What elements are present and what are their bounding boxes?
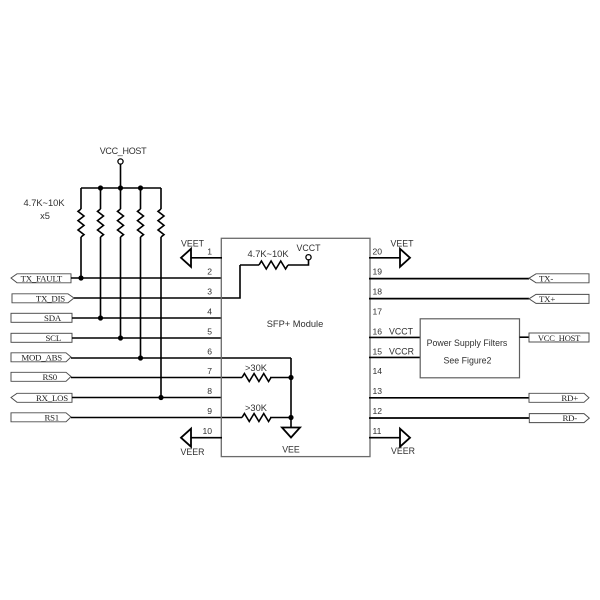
pin 6 bbox=[207, 347, 212, 357]
junction R3/SCL bbox=[118, 335, 123, 340]
pin 4 bbox=[207, 307, 212, 317]
wire top bus bbox=[81, 187, 161, 189]
power port VEE (down triangle) bbox=[282, 428, 300, 455]
wire filter box to VCC_HOST connector bbox=[520, 336, 530, 338]
svg-text:VEET: VEET bbox=[391, 239, 415, 249]
net label VCCR (pin 15) bbox=[389, 347, 414, 357]
resistor R8 >30K (pin 9 to VEE) bbox=[242, 414, 291, 422]
wire pin 20 to VEET port bbox=[369, 257, 400, 259]
connector RX_LOS (left-pointing flag) bbox=[11, 393, 72, 403]
svg-text:>30K: >30K bbox=[245, 403, 268, 413]
wire SDA to pin 4 bbox=[72, 317, 222, 319]
wire TX_DIS to pin 3 and internal riser bbox=[74, 265, 240, 298]
pin 14 bbox=[373, 366, 383, 376]
svg-text:VEET: VEET bbox=[181, 239, 205, 249]
svg-text:3: 3 bbox=[207, 287, 212, 297]
svg-text:9: 9 bbox=[207, 406, 212, 416]
connector SDA (rectangle) bbox=[11, 313, 72, 323]
connector RS1 (right-pointing flag) bbox=[11, 412, 71, 422]
svg-text:x5: x5 bbox=[40, 211, 50, 221]
wire pin 11 to VEER port bbox=[369, 437, 400, 439]
junction on bus at R3 bbox=[118, 185, 123, 190]
wire pin 13 to RD+ bbox=[369, 397, 529, 399]
svg-text:SCL: SCL bbox=[45, 333, 61, 343]
svg-text:10: 10 bbox=[202, 426, 212, 436]
svg-text:15: 15 bbox=[373, 347, 383, 357]
pin 3 bbox=[207, 287, 212, 297]
svg-text:SDA: SDA bbox=[44, 313, 62, 323]
value label >30K (R8) bbox=[245, 403, 268, 413]
wire RS1 to pin 9 bbox=[71, 417, 242, 419]
svg-text:4: 4 bbox=[207, 307, 212, 317]
svg-text:See Figure2: See Figure2 bbox=[444, 356, 492, 366]
resistor R6 4.7K~10K (internal, TX_DIS to VCCT) bbox=[240, 260, 309, 269]
junction on bus at R2 bbox=[98, 185, 103, 190]
value label >30K (R7) bbox=[245, 363, 268, 373]
svg-text:12: 12 bbox=[373, 406, 383, 416]
wire pin 1 to VEET port bbox=[191, 257, 222, 259]
pin 15 bbox=[373, 347, 383, 357]
svg-text:1: 1 bbox=[207, 247, 212, 257]
svg-text:VCCT: VCCT bbox=[297, 243, 322, 253]
svg-text:13: 13 bbox=[373, 386, 383, 396]
svg-text:TX_FAULT: TX_FAULT bbox=[21, 273, 63, 283]
junction on bus at R4 bbox=[138, 185, 143, 190]
junction R7 / VEE rail bbox=[288, 375, 293, 380]
svg-text:RS0: RS0 bbox=[42, 372, 57, 382]
wire pin 19 to TX- bbox=[369, 278, 529, 280]
pin 7 bbox=[207, 366, 212, 376]
connector TX+ (left-pointing flag) bbox=[529, 294, 589, 304]
wire pin 18 to TX+ bbox=[369, 298, 529, 300]
svg-text:SFP+ Module: SFP+ Module bbox=[267, 319, 324, 329]
connector TX_DIS (right-pointing flag) bbox=[12, 293, 74, 303]
wire pin 15 to filter box bbox=[369, 356, 420, 358]
resistor R7 >30K (pin 7 to VEE) bbox=[242, 374, 291, 382]
pin 18 bbox=[373, 287, 383, 297]
svg-text:14: 14 bbox=[373, 366, 383, 376]
wire MOD_ABS to pin 6 and internal run bbox=[71, 357, 291, 359]
svg-text:20: 20 bbox=[373, 247, 383, 257]
wire VCC_HOST vertical bbox=[120, 164, 122, 188]
connector VCC_HOST (rectangle, right) bbox=[529, 333, 589, 343]
svg-text:>30K: >30K bbox=[245, 363, 268, 373]
svg-text:TX+: TX+ bbox=[539, 294, 555, 304]
junction R4/MOD_ABS bbox=[138, 355, 143, 360]
pin 13 bbox=[373, 386, 383, 396]
svg-text:5: 5 bbox=[207, 327, 212, 337]
resistor R4 (4.7K~10K pull-up, to MOD_ABS) bbox=[138, 188, 144, 358]
svg-text:Power Supply Filters: Power Supply Filters bbox=[427, 338, 508, 348]
op module U1 SFP+ Module box bbox=[221, 238, 370, 456]
svg-text:VCCT: VCCT bbox=[389, 327, 414, 337]
svg-text:VEER: VEER bbox=[181, 447, 205, 457]
connector MOD_ABS (right-pointing flag) bbox=[11, 352, 71, 362]
pin 10 bbox=[202, 426, 212, 436]
svg-text:4.7K~10K: 4.7K~10K bbox=[247, 249, 289, 259]
wire RS0 to pin 7 bbox=[71, 377, 242, 379]
net label VCCT (pin 16) bbox=[389, 327, 414, 337]
pin 20 bbox=[373, 247, 383, 257]
connector RS0 (right-pointing flag) bbox=[11, 372, 71, 382]
svg-text:TX_DIS: TX_DIS bbox=[36, 293, 65, 303]
connector SCL (rectangle) bbox=[11, 333, 72, 343]
junction R2/SDA bbox=[98, 315, 103, 320]
pin 19 bbox=[373, 267, 383, 277]
resistor R1 (4.7K~10K pull-up, to TX_FAULT) bbox=[78, 188, 84, 278]
wire TX_FAULT to pin 2 bbox=[71, 277, 222, 279]
power port VEER (right, pin 11) bbox=[391, 429, 415, 456]
svg-text:VEER: VEER bbox=[391, 446, 415, 456]
connector RD- (right-pointing flag) bbox=[529, 413, 589, 423]
connector TX- (left-pointing flag) bbox=[529, 274, 589, 284]
svg-text:16: 16 bbox=[373, 327, 383, 337]
terminal VCC_HOST (open circle) bbox=[118, 159, 123, 164]
pin 16 bbox=[373, 327, 383, 337]
svg-text:VCCR: VCCR bbox=[389, 347, 414, 357]
resistor R2 (4.7K~10K pull-up, to SDA) bbox=[98, 188, 104, 318]
value label 4.7K~10K x5 bbox=[23, 198, 65, 221]
pin 1 bbox=[207, 247, 212, 257]
svg-text:19: 19 bbox=[373, 267, 383, 277]
svg-text:8: 8 bbox=[207, 386, 212, 396]
pin 12 bbox=[373, 406, 383, 416]
pin 5 bbox=[207, 327, 212, 337]
svg-text:RD+: RD+ bbox=[561, 393, 578, 403]
svg-text:TX-: TX- bbox=[539, 274, 553, 284]
svg-text:RX_LOS: RX_LOS bbox=[36, 393, 68, 403]
power port VEET (left, pin 1) bbox=[181, 239, 205, 267]
resistor R3 (4.7K~10K pull-up, to SCL) bbox=[118, 188, 124, 338]
connector RD+ (right-pointing flag) bbox=[529, 393, 589, 403]
resistor R5 (4.7K~10K pull-up, to RX_LOS) bbox=[158, 188, 164, 398]
pin 17 bbox=[373, 307, 383, 317]
wire pin 10 to VEER port bbox=[191, 437, 222, 439]
wire pin 12 to RD- bbox=[369, 417, 530, 419]
svg-text:11: 11 bbox=[373, 426, 382, 436]
wire SCL to pin 5 bbox=[72, 337, 222, 339]
pin 8 bbox=[207, 386, 212, 396]
svg-text:2: 2 bbox=[207, 267, 212, 277]
pin 9 bbox=[207, 406, 212, 416]
wire pin 16 to filter box bbox=[369, 336, 420, 338]
svg-text:6: 6 bbox=[207, 347, 212, 357]
pin 11 bbox=[373, 426, 382, 436]
svg-text:RS1: RS1 bbox=[44, 412, 59, 422]
svg-text:RD-: RD- bbox=[562, 413, 577, 423]
svg-text:MOD_ABS: MOD_ABS bbox=[21, 352, 62, 362]
pin 2 bbox=[207, 267, 212, 277]
svg-text:7: 7 bbox=[207, 366, 212, 376]
power port VEET (right, pin 20) bbox=[391, 239, 415, 267]
svg-text:VCC_HOST: VCC_HOST bbox=[538, 333, 581, 343]
wire internal pin6 run down bbox=[290, 358, 292, 427]
junction R8 / VEE rail bbox=[288, 415, 293, 420]
terminal VCCT (open circle) bbox=[297, 243, 322, 260]
svg-text:VEE: VEE bbox=[282, 445, 300, 455]
value label 4.7K~10K (internal) bbox=[247, 249, 289, 259]
connector TX_FAULT (left-pointing flag) bbox=[11, 273, 71, 283]
svg-text:VCC_HOST: VCC_HOST bbox=[100, 146, 147, 156]
block Power Supply Filters bbox=[420, 319, 519, 378]
junction R5/RX_LOS bbox=[158, 395, 163, 400]
junction R1/TX_FAULT bbox=[78, 275, 83, 280]
svg-text:4.7K~10K: 4.7K~10K bbox=[23, 198, 65, 208]
svg-text:18: 18 bbox=[373, 287, 383, 297]
net label VCC_HOST (top) bbox=[100, 146, 147, 156]
svg-text:17: 17 bbox=[373, 307, 383, 317]
wire RX_LOS to pin 8 bbox=[72, 397, 222, 399]
power port VEER (left, pin 10) bbox=[181, 429, 205, 457]
